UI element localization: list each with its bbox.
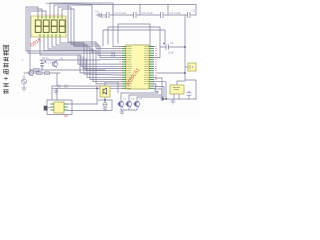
wire mid riser d [86, 59, 122, 71]
wire display bottom pin1 staircase [60, 37, 122, 75]
IC pin numbers right (red) [155, 47, 157, 80]
transistor Q5 [117, 101, 124, 108]
char 理 [3, 51, 9, 56]
svg-text:10uF: 10uF [168, 51, 174, 55]
capacitor C3 [134, 12, 137, 18]
svg-text:Q1: Q1 [60, 57, 64, 61]
capacitor C4 [161, 12, 164, 18]
capacitor C1 (row start) [99, 13, 101, 17]
resistor R3 small box [34, 69, 40, 72]
svg-text:C6: C6 [170, 41, 174, 45]
crystal Y1 [44, 106, 47, 110]
rail stub 4 [195, 5, 197, 16]
resistor R4 [37, 72, 43, 75]
wire transistor emitter rail [121, 108, 137, 110]
wire wrap-over B (IC top) [108, 27, 160, 47]
wire display top pin G right riser [62, 9, 100, 46]
wire wrap-over C (IC top) [103, 30, 165, 46]
char 录 [3, 83, 9, 87]
osc out wires [68, 103, 98, 105]
cap row baseline [96, 14, 106, 16]
svg-text:U2: U2 [64, 114, 68, 118]
diode D3 [160, 97, 166, 100]
wire bundle into IC pin2 [96, 42, 122, 49]
wire EA branch down [154, 78, 162, 98]
wire display top pin F right riser [58, 7, 98, 44]
wire buzzer bottom [104, 97, 106, 100]
regulator bottom pins [173, 94, 175, 99]
wire IC right wrap 3 [129, 86, 162, 101]
wire IC right wrap 2 [137, 84, 164, 101]
oscillator IC U2 [54, 102, 64, 113]
top power rail [46, 3, 100, 4]
wire left circuit mid rail [30, 69, 122, 72]
rail stub 3 [167, 5, 169, 16]
buzzer LS1 [100, 86, 110, 97]
regulator top pin [177, 81, 185, 85]
display DS1 body [31, 16, 66, 37]
char 1 [4, 77, 8, 80]
wire long run to XTAL cap [68, 5, 116, 53]
svg-text:C3 0.1uF: C3 0.1uF [142, 11, 154, 15]
wire display top pin B to left riser [28, 9, 122, 53]
IC left pins [122, 47, 126, 89]
right vertical rail [185, 15, 196, 99]
wire mid riser b [81, 55, 122, 66]
ground on y86 rail [54, 88, 59, 94]
transistor Q3 second stage [29, 70, 34, 76]
series comps on y86 rail [58, 85, 67, 88]
svg-text:R2 1k: R2 1k [42, 56, 49, 60]
transistor Q7 [133, 101, 140, 108]
wire left circuit top rail [40, 59, 122, 61]
wire display top pin E right riser [54, 5, 96, 42]
display bottom pins [40, 34, 60, 36]
capacitor C5 [188, 12, 191, 18]
wire y86 long rail [52, 85, 122, 87]
rail stub 2 [139, 5, 141, 16]
char 附 [3, 89, 9, 93]
svg-text:C4 0.1uF: C4 0.1uF [170, 11, 182, 15]
regulator U3 [170, 85, 184, 94]
capacitor C2 (top row) [107, 12, 110, 18]
wire display top pin D long top run [50, 3, 122, 47]
diode/cap D1 left circuit [40, 60, 46, 70]
IC U1 body [126, 45, 149, 89]
wire buzzer top link [105, 82, 118, 93]
junction dots [96, 46, 186, 101]
wire display top pin C to left riser [30, 11, 46, 70]
wire display bottom pin4 staircase [48, 37, 122, 82]
ground buzzer [103, 107, 108, 112]
wire display top pin A to left riser [26, 7, 122, 51]
display digits 8888 [35, 20, 65, 32]
char 电 [4, 69, 9, 74]
char 路 [3, 63, 9, 67]
IC pin numbers left (red) [119, 47, 121, 89]
wire bottom power rail [162, 98, 196, 100]
IC internal pin-name text right [144, 47, 148, 84]
IC internal pin-name text left [127, 47, 132, 89]
wire display bottom pin2 staircase [56, 37, 122, 77]
svg-text:C2 0.1uF: C2 0.1uF [115, 11, 127, 15]
rail stub 1 [112, 5, 114, 16]
display top pins [38, 16, 62, 18]
wire display bottom pin5 staircase [44, 37, 122, 84]
wire ground drop transistors [121, 110, 123, 112]
wire IC right wrap 4 [121, 88, 158, 101]
svg-text:C5: C5 [192, 9, 196, 13]
wire display bottom pin3 staircase [52, 37, 122, 80]
tiny pin name labels under display [22, 60, 57, 65]
caption: 附录1 电路原理图 (drawn glyphs, rotated) [3, 45, 9, 93]
wire y73 branch [157, 72, 185, 74]
wire y88 long rail [52, 87, 122, 89]
wire battery stub [185, 66, 188, 68]
IC right pins [149, 47, 154, 89]
cap C7 [187, 93, 192, 95]
battery B1 [188, 63, 196, 71]
ground (LED leg) [22, 88, 27, 91]
wire base rail second stage [24, 72, 60, 74]
transistor Q6 [125, 101, 132, 108]
wire IC right wrap 1 [154, 82, 166, 99]
ground transistors [120, 112, 125, 115]
wire display bottom pin6 staircase [40, 37, 122, 73]
char 原 [3, 57, 9, 61]
svg-text:10uF: 10uF [100, 15, 107, 19]
capacitor pair near XTAL pins [112, 52, 122, 57]
osc box loop [47, 100, 72, 115]
wire left vertical x52 [51, 86, 53, 100]
wire vertical x57 [56, 73, 58, 86]
wire mid riser a [78, 55, 122, 64]
transistor Q2 (left circuit) [52, 61, 58, 68]
wire mid riser c [83, 57, 122, 69]
wire bundle merge [100, 46, 122, 58]
transistor ref labels [123, 99, 143, 101]
wire bundle into IC pin3 [98, 44, 116, 55]
ground bottom right [171, 99, 176, 104]
resistor R5 [45, 72, 50, 75]
wire wrap-over A (IC top) [118, 24, 154, 47]
cap row labels [95, 9, 196, 19]
buzzer lower symbol [103, 103, 107, 107]
wire RST branch to cap [154, 47, 166, 58]
cap right of regulator [188, 91, 190, 93]
capacitor C6 on RST wire [163, 43, 168, 50]
LED D2 [22, 75, 27, 88]
svg-text:C9: C9 [95, 10, 99, 14]
char 图 [3, 45, 9, 50]
